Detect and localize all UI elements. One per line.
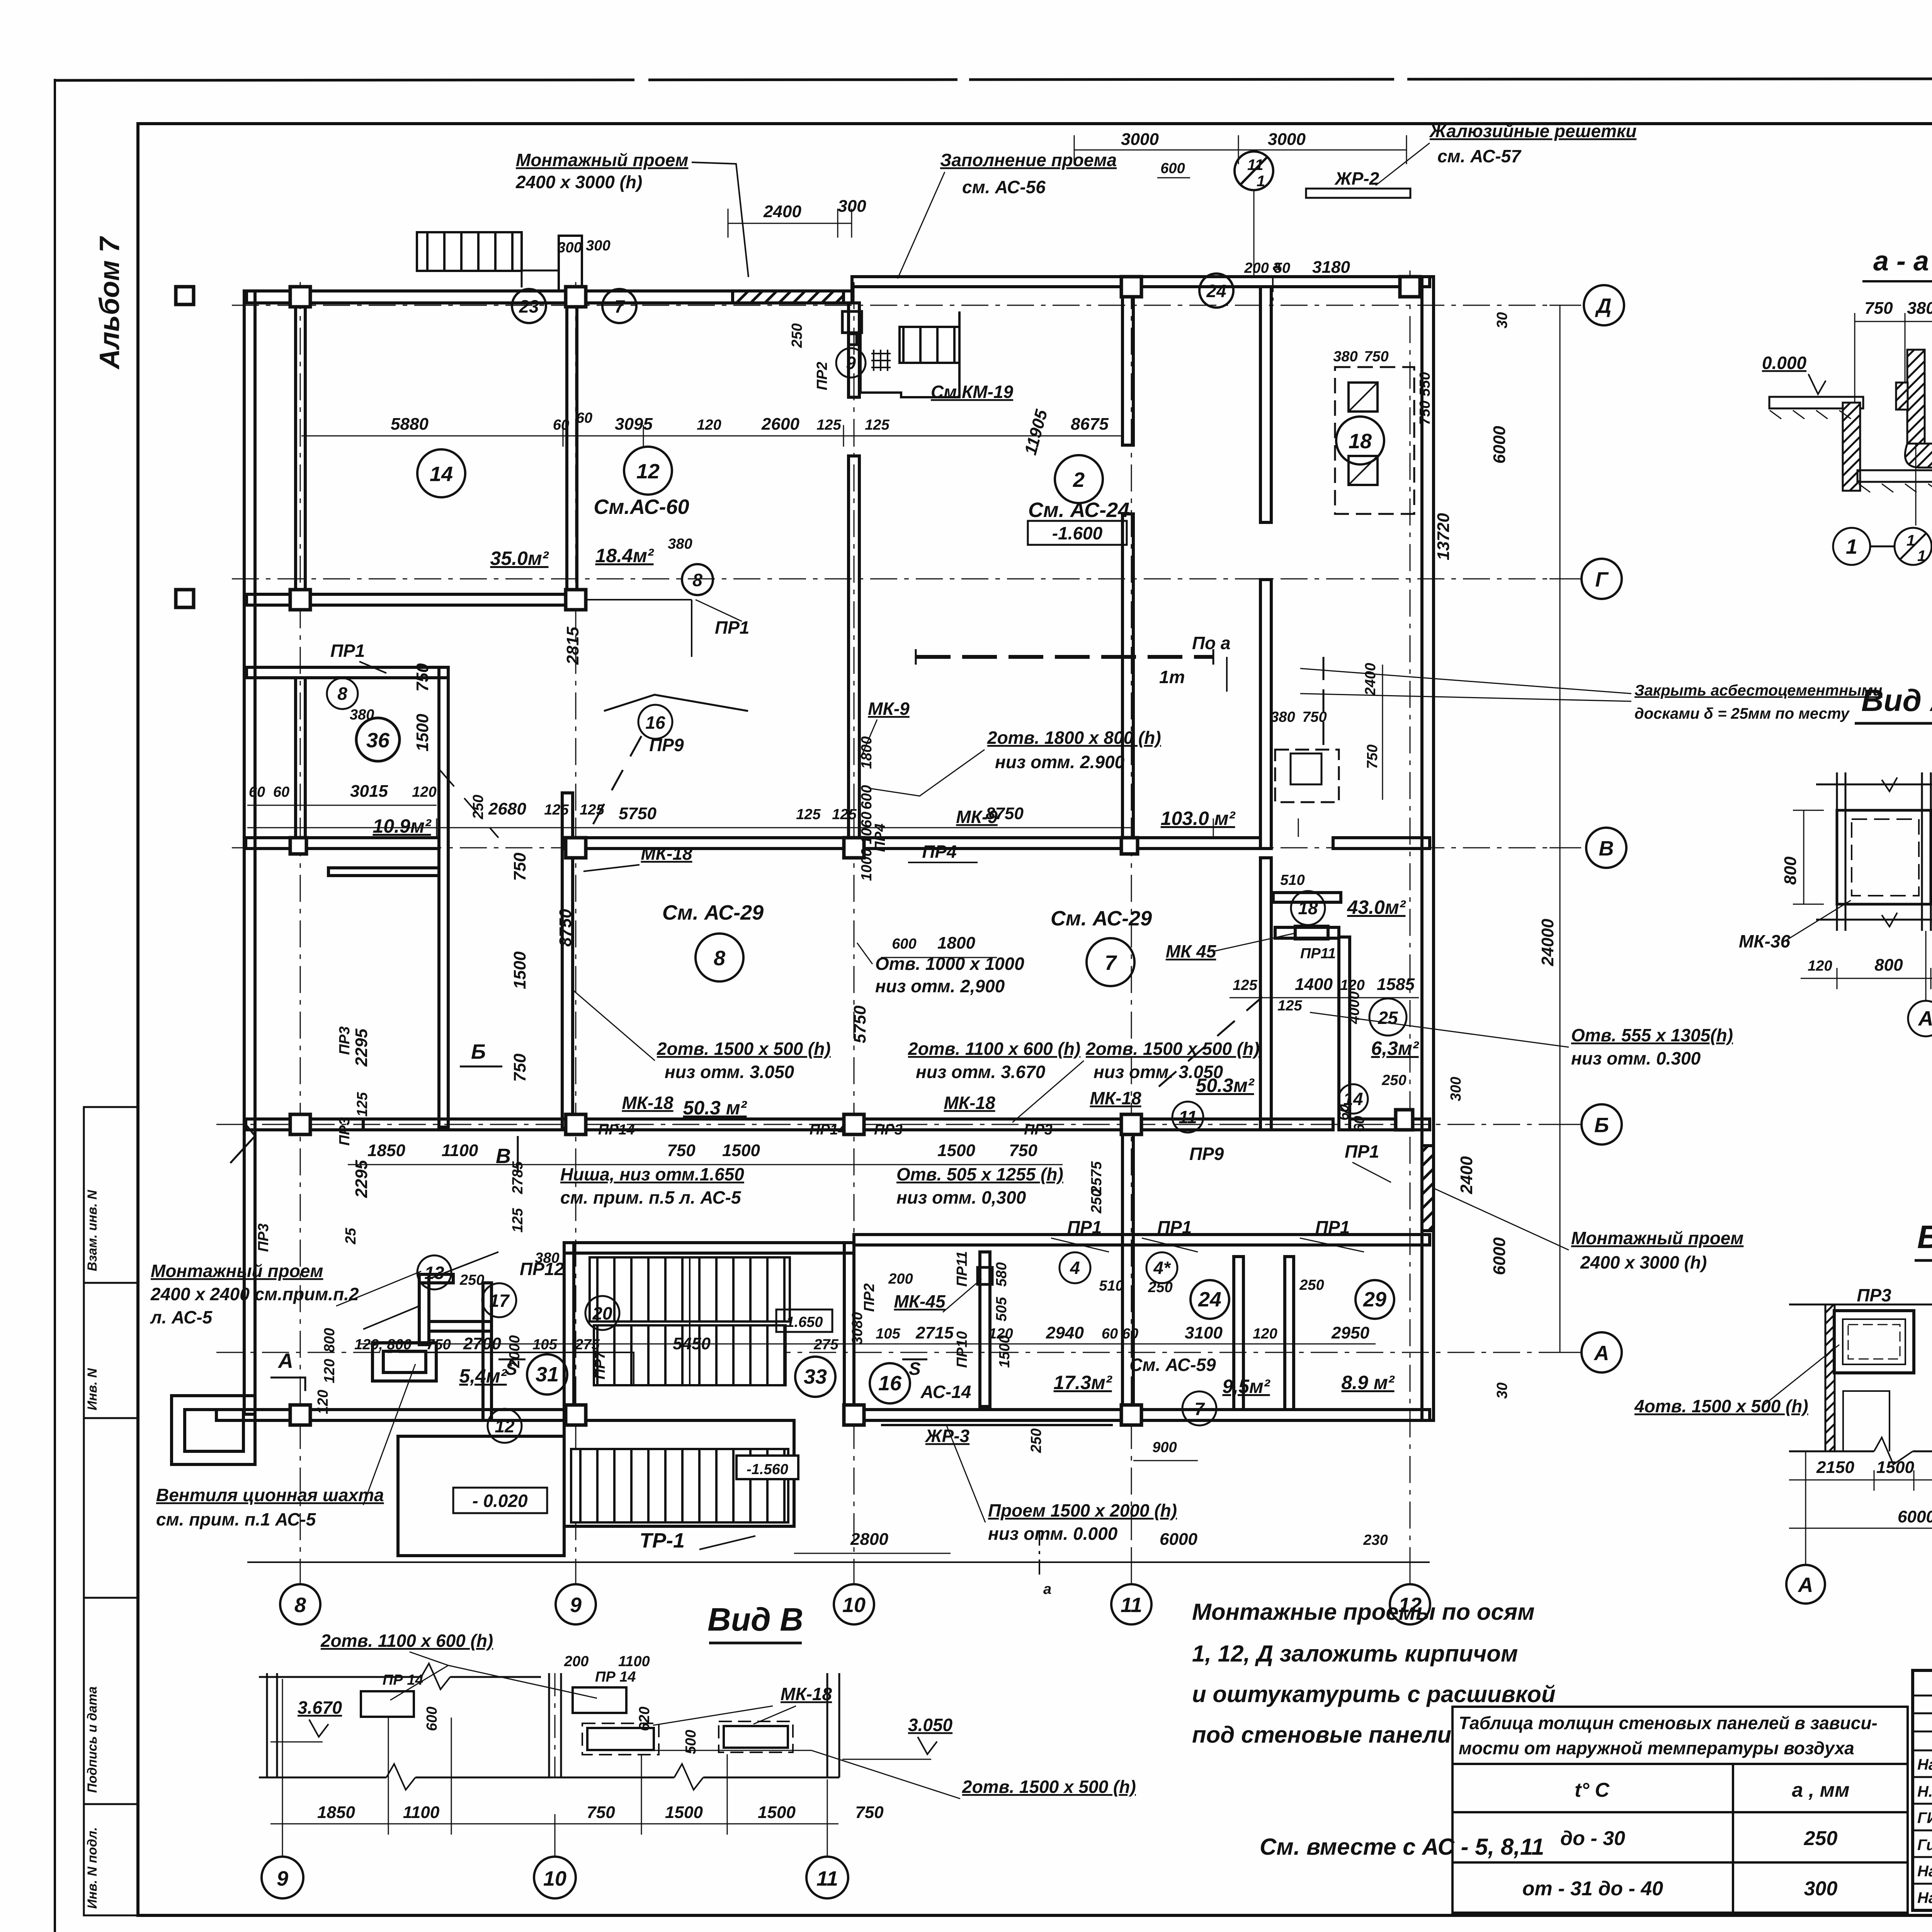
svg-text:125: 125 xyxy=(1233,977,1257,993)
svg-text:25: 25 xyxy=(343,1228,359,1245)
svg-text:275: 275 xyxy=(813,1337,838,1353)
svg-text:600: 600 xyxy=(424,1707,440,1731)
svg-text:ПР3: ПР3 xyxy=(255,1223,272,1252)
svg-text:300: 300 xyxy=(557,240,582,256)
svg-text:Гип.стр.: Гип.стр. xyxy=(1917,1837,1932,1854)
svg-text:8: 8 xyxy=(714,947,725,970)
svg-text:см. прим. п.5 л. АС-5: см. прим. п.5 л. АС-5 xyxy=(560,1187,742,1207)
svg-text:- 0.020: - 0.020 xyxy=(472,1491,528,1511)
svg-text:См.АС-60: См.АС-60 xyxy=(594,495,689,519)
bubble 11/1 top xyxy=(1235,151,1273,277)
svg-text:2отв. 1500 x 500 (h): 2отв. 1500 x 500 (h) xyxy=(962,1777,1136,1797)
svg-text:16: 16 xyxy=(645,713,665,733)
svg-text:МК-18: МК-18 xyxy=(1090,1088,1141,1108)
svg-text:ПР11: ПР11 xyxy=(954,1251,970,1287)
svg-text:129, 800: 129, 800 xyxy=(354,1337,412,1353)
svg-text:300: 300 xyxy=(586,238,610,254)
wall x3345 xyxy=(1260,287,1271,522)
1t dashed bar room2 xyxy=(916,649,1213,665)
svg-text:А: А xyxy=(1798,1573,1813,1597)
svg-text:и оштукатурить с расшивкой: и оштукатурить с расшивкой xyxy=(1192,1681,1556,1707)
svg-text:1500: 1500 xyxy=(758,1803,796,1822)
svg-text:6000: 6000 xyxy=(1160,1530,1197,1549)
svg-text:Монтажный проем: Монтажный проем xyxy=(151,1261,323,1281)
svg-text:ПР10: ПР10 xyxy=(954,1331,970,1368)
svg-text:3000: 3000 xyxy=(1268,130,1306,149)
lower stair -1.560 xyxy=(571,1449,798,1522)
svg-text:3015: 3015 xyxy=(350,782,388,801)
svg-text:ПР3: ПР3 xyxy=(337,1026,353,1055)
ZhR-2 wall piece xyxy=(1306,189,1410,198)
svg-text:7: 7 xyxy=(1194,1399,1205,1419)
svg-text:низ отм. 0.300: низ отм. 0.300 xyxy=(1571,1048,1701,1068)
svg-text:750: 750 xyxy=(855,1803,884,1822)
svg-text:2отв. 1500 x 500 (h): 2отв. 1500 x 500 (h) xyxy=(656,1039,831,1059)
svg-text:ПР3: ПР3 xyxy=(337,1117,353,1146)
diagonal dashed PR9 xyxy=(576,736,641,856)
svg-text:750: 750 xyxy=(587,1803,615,1822)
svg-text:2отв. 1100 x 600 (h): 2отв. 1100 x 600 (h) xyxy=(908,1039,1080,1059)
svg-text:4отв. 1500 x 500 (h): 4отв. 1500 x 500 (h) xyxy=(1634,1396,1808,1416)
svg-text:250: 250 xyxy=(1381,1072,1406,1088)
svg-text:13720: 13720 xyxy=(1434,513,1453,560)
svg-text:380: 380 xyxy=(1333,349,1357,365)
svg-text:10: 10 xyxy=(842,1594,866,1617)
svg-text:Нач. гр.: Нач. гр. xyxy=(1917,1863,1932,1880)
room8 left wall xyxy=(562,793,573,1128)
svg-text:См. АС-29: См. АС-29 xyxy=(1051,907,1152,930)
svg-text:125: 125 xyxy=(832,806,857,823)
svg-text:230: 230 xyxy=(1363,1532,1388,1548)
svg-text:125: 125 xyxy=(354,1092,371,1117)
svg-text:8: 8 xyxy=(337,684,347,704)
svg-text:33: 33 xyxy=(804,1365,827,1388)
svg-text:1500: 1500 xyxy=(722,1141,760,1160)
svg-text:досками δ = 25мм по месту: досками δ = 25мм по месту xyxy=(1634,705,1850,722)
svg-text:2150: 2150 xyxy=(1816,1458,1854,1477)
svg-text:250: 250 xyxy=(459,1272,484,1288)
axis10 wall upper xyxy=(849,303,859,397)
svg-text:2950: 2950 xyxy=(1331,1323,1369,1342)
svg-text:50: 50 xyxy=(1274,260,1290,276)
svg-text:ПР14: ПР14 xyxy=(598,1122,635,1138)
svg-text:250: 250 xyxy=(470,795,486,820)
room 14/12 bottom wall xyxy=(247,594,572,605)
svg-text:Жалюзийные решетки: Жалюзийные решетки xyxy=(1429,121,1636,141)
svg-text:2отв. 1500 x 500 (h): 2отв. 1500 x 500 (h) xyxy=(1085,1039,1260,1059)
svg-text:от - 31 до - 40: от - 31 до - 40 xyxy=(1522,1878,1663,1900)
vent shaft xyxy=(372,1343,436,1381)
svg-text:120: 120 xyxy=(1340,977,1364,993)
svg-text:750: 750 xyxy=(1302,709,1327,725)
svg-text:2940: 2940 xyxy=(1046,1323,1084,1342)
svg-text:до - 30: до - 30 xyxy=(1560,1827,1625,1850)
svg-text:4: 4 xyxy=(1070,1258,1080,1278)
svg-text:2800: 2800 xyxy=(850,1530,888,1549)
svg-text:580: 580 xyxy=(993,1262,1010,1287)
svg-text:Б: Б xyxy=(1594,1114,1609,1137)
svg-text:5750: 5750 xyxy=(619,804,656,823)
svg-text:200: 200 xyxy=(888,1271,913,1287)
svg-text:Таблица толщин стеновых панел: Таблица толщин стеновых панелей в зависи… xyxy=(1459,1713,1878,1733)
svg-text:2400: 2400 xyxy=(1457,1156,1476,1194)
svg-text:120: 120 xyxy=(321,1359,338,1383)
wall B segments xyxy=(246,1119,448,1130)
svg-text:МК-36: МК-36 xyxy=(1739,931,1790,951)
svg-text:380: 380 xyxy=(535,1250,559,1266)
svg-text:Отв. 555 x 1305(h): Отв. 555 x 1305(h) xyxy=(1571,1025,1733,1045)
svg-text:1500: 1500 xyxy=(1876,1458,1914,1477)
svg-text:Вентиля ционная шахта: Вентиля ционная шахта xyxy=(156,1485,384,1505)
svg-text:См. АС-24: См. АС-24 xyxy=(1028,498,1129,522)
svg-text:125: 125 xyxy=(510,1208,526,1233)
svg-text:18.4м²: 18.4м² xyxy=(595,545,654,566)
sheet scan edge left xyxy=(54,79,56,1932)
svg-text:103.0 м²: 103.0 м² xyxy=(1161,808,1236,829)
svg-text:6000: 6000 xyxy=(1490,1237,1509,1275)
svg-text:низ отм. 0.000: низ отм. 0.000 xyxy=(988,1524,1118,1544)
axis8 wall in room14 xyxy=(296,303,305,594)
axis bubbles bottom xyxy=(280,1562,1430,1624)
wall D left xyxy=(247,291,852,303)
svg-text:7: 7 xyxy=(1105,951,1117,975)
svg-text:800: 800 xyxy=(321,1328,338,1352)
svg-text:низ отм. 0,300: низ отм. 0,300 xyxy=(896,1187,1026,1207)
svg-text:1100: 1100 xyxy=(618,1653,650,1670)
svg-text:ПР2: ПР2 xyxy=(861,1283,878,1312)
svg-text:8: 8 xyxy=(692,570,702,590)
svg-text:низ отм. 3.050: низ отм. 3.050 xyxy=(1094,1062,1223,1082)
svg-text:8.9 м²: 8.9 м² xyxy=(1341,1372,1395,1393)
stair top-middle PR2 xyxy=(842,311,959,397)
svg-text:ПР14: ПР14 xyxy=(810,1122,846,1138)
svg-text:750: 750 xyxy=(510,1053,529,1082)
svg-text:a , мм: a , мм xyxy=(1792,1779,1849,1801)
axis bubbles right xyxy=(1582,285,1626,1372)
svg-text:8750: 8750 xyxy=(986,804,1024,823)
svg-text:1100: 1100 xyxy=(403,1803,440,1822)
svg-text:Г: Г xyxy=(1595,568,1609,591)
wall D right upper xyxy=(852,277,1430,287)
svg-text:620: 620 xyxy=(636,1707,653,1731)
svg-text:низ отм. 2.900: низ отм. 2.900 xyxy=(995,752,1125,772)
svg-text:800: 800 xyxy=(1781,856,1800,885)
svg-text:ПР2: ПР2 xyxy=(814,362,830,390)
svg-text:1, 12, Д заложить кирпичом: 1, 12, Д заложить кирпичом xyxy=(1192,1641,1518,1667)
svg-text:750: 750 xyxy=(1364,349,1388,365)
axis D line xyxy=(232,305,1584,306)
svg-text:ПР3: ПР3 xyxy=(1857,1285,1891,1305)
svg-text:Д: Д xyxy=(1595,294,1612,318)
room 43.0 wall xyxy=(1339,937,1350,1130)
svg-text:Взам. инв. N: Взам. инв. N xyxy=(85,1189,100,1271)
svg-text:МК-18: МК-18 xyxy=(622,1093,673,1113)
svg-text:Альбом 7: Альбом 7 xyxy=(94,236,125,370)
svg-text:S: S xyxy=(909,1359,921,1379)
svg-text:ЖР-2: ЖР-2 xyxy=(1334,168,1379,189)
svg-text:-1.600: -1.600 xyxy=(1052,523,1103,543)
svg-text:35.0м²: 35.0м² xyxy=(490,548,549,569)
svg-text:Монтажные проемы по осям: Монтажные проемы по осям xyxy=(1192,1599,1535,1625)
svg-text:0.000: 0.000 xyxy=(1762,353,1807,373)
svg-text:8: 8 xyxy=(294,1594,306,1617)
svg-text:низ отм. 3.670: низ отм. 3.670 xyxy=(916,1062,1046,1082)
axis 9 line xyxy=(575,282,577,1582)
axis A line xyxy=(216,1352,1584,1353)
svg-text:800: 800 xyxy=(1874,956,1903,975)
axis 12 line xyxy=(1410,270,1411,1582)
axis 8 line xyxy=(300,282,301,1582)
mid plan labels xyxy=(638,705,672,739)
svg-text:30: 30 xyxy=(1494,1383,1510,1399)
svg-text:1850: 1850 xyxy=(317,1803,355,1822)
axis B line xyxy=(216,1124,1584,1125)
svg-text:S: S xyxy=(505,1359,517,1379)
svg-text:14: 14 xyxy=(430,463,453,486)
svg-text:Заполнение проема: Заполнение проема xyxy=(940,150,1117,170)
1.650 level box xyxy=(776,1310,832,1332)
svg-text:Инв. N подл.: Инв. N подл. xyxy=(85,1827,100,1909)
svg-text:ПР1: ПР1 xyxy=(330,641,365,661)
svg-text:1: 1 xyxy=(1906,532,1915,549)
svg-text:12: 12 xyxy=(636,460,660,483)
svg-text:60: 60 xyxy=(273,784,289,800)
svg-text:t° С: t° С xyxy=(1575,1779,1610,1801)
svg-text:Монтажный проем: Монтажный проем xyxy=(1571,1228,1743,1248)
svg-text:1500: 1500 xyxy=(665,1803,703,1822)
svg-text:200: 200 xyxy=(1244,260,1269,276)
svg-text:380: 380 xyxy=(1270,709,1295,725)
svg-text:60: 60 xyxy=(553,417,569,433)
svg-text:36: 36 xyxy=(366,729,390,752)
axis9 wall upper xyxy=(567,303,577,605)
svg-text:1000: 1000 xyxy=(859,848,875,881)
bottom plan baseline xyxy=(247,1561,1430,1563)
svg-text:10.9м²: 10.9м² xyxy=(373,815,432,837)
svg-text:ПР1: ПР1 xyxy=(1157,1217,1192,1237)
svg-text:См.КМ-19: См.КМ-19 xyxy=(931,382,1014,402)
svg-text:31: 31 xyxy=(536,1363,559,1386)
svg-text:6000: 6000 xyxy=(1490,426,1509,464)
svg-text:ПР7: ПР7 xyxy=(592,1350,608,1379)
svg-text:125: 125 xyxy=(580,802,604,818)
svg-text:ПР4: ПР4 xyxy=(922,842,956,862)
svg-text:1500: 1500 xyxy=(937,1141,975,1160)
svg-text:Вид В: Вид В xyxy=(707,1601,803,1638)
svg-text:50.3 м²: 50.3 м² xyxy=(683,1097,747,1119)
svg-text:9: 9 xyxy=(277,1867,288,1890)
svg-text:750: 750 xyxy=(510,852,529,881)
svg-text:9: 9 xyxy=(846,353,856,373)
svg-text:6000: 6000 xyxy=(1898,1507,1932,1526)
svg-text:ПР1: ПР1 xyxy=(715,617,749,638)
svg-text:8750: 8750 xyxy=(556,909,575,947)
dim row y1110 xyxy=(300,425,1122,447)
svg-text:А: А xyxy=(1594,1342,1609,1365)
svg-text:2680: 2680 xyxy=(488,799,526,818)
lower-left block outline xyxy=(247,667,448,678)
svg-text:3000: 3000 xyxy=(1121,130,1159,149)
svg-text:2400: 2400 xyxy=(1362,663,1379,696)
svg-text:23: 23 xyxy=(519,296,539,316)
wall V (axis V) segments xyxy=(246,838,439,849)
svg-text:9,5м²: 9,5м² xyxy=(1222,1376,1270,1397)
svg-text:2: 2 xyxy=(1073,468,1085,492)
svg-text:5880: 5880 xyxy=(391,415,429,434)
svg-text:1: 1 xyxy=(1257,173,1265,190)
24000 dim line right xyxy=(1549,305,1580,1352)
svg-text:250: 250 xyxy=(1028,1429,1044,1453)
svg-text:По a: По a xyxy=(1192,633,1231,653)
svg-text:См. АС-59: См. АС-59 xyxy=(1129,1355,1216,1375)
svg-text:2785: 2785 xyxy=(510,1161,526,1194)
svg-text:11: 11 xyxy=(1121,1594,1142,1617)
svg-text:1: 1 xyxy=(1917,548,1926,565)
svg-text:МК-18: МК-18 xyxy=(641,844,692,864)
svg-text:3180: 3180 xyxy=(1312,258,1350,277)
svg-text:1500: 1500 xyxy=(510,951,529,989)
columns xyxy=(176,277,1420,1425)
svg-text:2400: 2400 xyxy=(763,202,801,221)
svg-text:60: 60 xyxy=(576,410,592,426)
svg-text:3080: 3080 xyxy=(849,1312,866,1345)
svg-text:60: 60 xyxy=(249,784,265,800)
svg-text:750: 750 xyxy=(413,663,432,692)
svg-text:120: 120 xyxy=(1253,1326,1277,1342)
svg-text:5750: 5750 xyxy=(850,1005,869,1043)
svg-text:25: 25 xyxy=(1378,1008,1398,1028)
svg-text:ПР11: ПР11 xyxy=(1300,946,1336,962)
svg-text:125: 125 xyxy=(544,802,569,818)
PR3 windows xyxy=(1834,1311,1932,1373)
svg-text:Ниша, низ отм.1.650: Ниша, низ отм.1.650 xyxy=(560,1164,744,1184)
svg-text:17: 17 xyxy=(489,1291,510,1311)
svg-text:29: 29 xyxy=(1363,1288,1386,1311)
right wall opening hatch xyxy=(1422,1146,1434,1231)
svg-text:105: 105 xyxy=(532,1337,557,1353)
svg-text:18: 18 xyxy=(1349,430,1372,453)
Vid B axis bubbles xyxy=(1786,1451,1932,1604)
svg-text:ПР 14: ПР 14 xyxy=(595,1669,636,1685)
svg-text:24000: 24000 xyxy=(1538,918,1557,966)
svg-text:2600: 2600 xyxy=(761,415,799,434)
svg-text:Н.контр.: Н.контр. xyxy=(1917,1783,1932,1800)
svg-text:300: 300 xyxy=(838,197,866,216)
svg-text:18: 18 xyxy=(1298,898,1318,918)
svg-text:ПР9: ПР9 xyxy=(1189,1144,1224,1164)
svg-text:низ отм. 2,900: низ отм. 2,900 xyxy=(875,976,1005,996)
svg-text:2400 x 3000 (h): 2400 x 3000 (h) xyxy=(1580,1252,1707,1272)
svg-text:А: А xyxy=(277,1349,293,1372)
Vid A figure xyxy=(1816,772,1932,931)
svg-text:60: 60 xyxy=(1102,1326,1118,1342)
svg-text:11: 11 xyxy=(1247,156,1264,173)
svg-text:7: 7 xyxy=(614,296,625,316)
svg-text:125: 125 xyxy=(796,806,821,823)
svg-text:17.3м²: 17.3м² xyxy=(1054,1372,1112,1393)
svg-text:120: 120 xyxy=(412,784,436,800)
svg-text:900: 900 xyxy=(1152,1439,1177,1456)
svg-text:Вид Б: Вид Б xyxy=(1917,1219,1932,1255)
axis 10 line xyxy=(854,282,855,1582)
a-a figure xyxy=(1769,350,1932,492)
svg-text:600: 600 xyxy=(859,785,875,810)
svg-text:120: 120 xyxy=(988,1326,1013,1342)
left outer wall top xyxy=(244,291,255,1414)
svg-text:24: 24 xyxy=(1198,1288,1221,1311)
svg-text:1: 1 xyxy=(1846,535,1857,558)
svg-text:125: 125 xyxy=(1277,998,1302,1014)
svg-text:ТР-1: ТР-1 xyxy=(639,1529,685,1552)
room36 area xyxy=(356,718,400,761)
svg-text:МК-9: МК-9 xyxy=(868,699,910,719)
svg-text:300: 300 xyxy=(1448,1077,1464,1101)
sheet scan edge top xyxy=(55,78,1932,80)
svg-text:3.670: 3.670 xyxy=(298,1697,342,1718)
svg-text:АС-14: АС-14 xyxy=(920,1382,971,1402)
svg-text:125: 125 xyxy=(816,417,841,433)
svg-text:24: 24 xyxy=(1206,281,1226,301)
svg-text:120: 120 xyxy=(1808,958,1832,974)
svg-text:2815: 2815 xyxy=(563,627,582,665)
svg-text:см. АС-56: см. АС-56 xyxy=(962,177,1046,197)
top dims xyxy=(728,135,1406,238)
svg-text:См. АС-29: См. АС-29 xyxy=(662,901,764,924)
svg-text:ПР1: ПР1 xyxy=(1345,1141,1379,1162)
svg-text:120: 120 xyxy=(315,1390,331,1414)
svg-text:Монтажный проем: Монтажный проем xyxy=(516,150,688,170)
svg-text:Нач. гр.: Нач. гр. xyxy=(1917,1889,1932,1906)
svg-text:-1.560: -1.560 xyxy=(747,1461,788,1478)
svg-text:2400 x 2400 см.прим.п.2: 2400 x 2400 см.прим.п.2 xyxy=(150,1284,359,1304)
svg-text:10: 10 xyxy=(543,1867,566,1890)
svg-text:2715: 2715 xyxy=(915,1323,954,1342)
tambour outline xyxy=(398,1436,564,1556)
svg-text:750: 750 xyxy=(1864,299,1893,318)
svg-text:275: 275 xyxy=(575,1337,600,1353)
svg-text:4*: 4* xyxy=(1153,1258,1171,1278)
svg-text:ГИП: ГИП xyxy=(1917,1810,1932,1827)
svg-text:600: 600 xyxy=(1160,160,1185,177)
svg-text:2295: 2295 xyxy=(352,1029,371,1067)
svg-text:250: 250 xyxy=(1299,1277,1324,1293)
svg-text:Вид А: Вид А xyxy=(1861,683,1932,718)
svg-text:300: 300 xyxy=(1804,1878,1838,1900)
svg-text:510: 510 xyxy=(1099,1278,1123,1294)
svg-text:Закрыть асбестоцементными: Закрыть асбестоцементными xyxy=(1634,682,1882,699)
svg-text:a: a xyxy=(1043,1581,1051,1597)
svg-text:11: 11 xyxy=(1179,1107,1197,1127)
svg-text:6,3м²: 6,3м² xyxy=(1371,1037,1419,1059)
svg-text:1585: 1585 xyxy=(1377,975,1415,994)
svg-text:Нач.отд.: Нач.отд. xyxy=(1917,1756,1932,1773)
svg-text:20: 20 xyxy=(592,1303,612,1323)
svg-text:750: 750 xyxy=(426,1337,451,1353)
svg-text:11: 11 xyxy=(816,1867,838,1890)
svg-text:1100: 1100 xyxy=(442,1141,478,1160)
wall A band xyxy=(216,1410,564,1420)
left margin label boxes xyxy=(84,1107,138,1915)
lower stair room TP-1 xyxy=(564,1420,794,1526)
svg-text:30: 30 xyxy=(1494,312,1510,328)
svg-text:600: 600 xyxy=(892,936,916,952)
room circles row 1 xyxy=(417,274,1384,595)
svg-text:750 550: 750 550 xyxy=(1417,372,1433,425)
svg-text:380: 380 xyxy=(1907,299,1932,318)
svg-text:510: 510 xyxy=(1280,872,1304,888)
svg-text:250: 250 xyxy=(1088,1189,1105,1214)
svg-text:505: 505 xyxy=(993,1297,1010,1321)
